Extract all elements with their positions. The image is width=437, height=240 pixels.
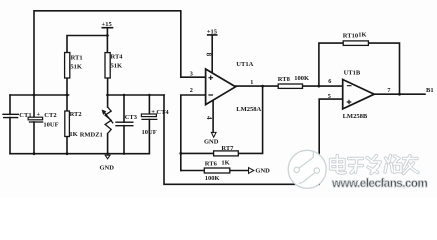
ground arrow at RT6 — [249, 168, 254, 174]
wire RT4 bottom to bus — [107, 78, 109, 95]
svg-text:100K: 100K — [205, 175, 220, 182]
svg-text:CT4: CT4 — [156, 109, 169, 116]
ground arrow at RMDZ1 bus — [105, 155, 110, 159]
svg-text:RMDZ1: RMDZ1 — [80, 131, 103, 138]
svg-text:6: 6 — [328, 78, 331, 85]
capacitor CT2 — [28, 117, 43, 122]
resistor RT10 — [343, 41, 368, 46]
wire CT2 column lower — [33, 122, 35, 154]
capacitor CT1 — [2, 114, 19, 117]
svg-text:+15: +15 — [102, 21, 113, 28]
svg-text:5: 5 — [328, 93, 331, 100]
svg-text:1: 1 — [250, 79, 253, 86]
svg-text:RT8: RT8 — [278, 76, 291, 83]
svg-text:10UF: 10UF — [43, 121, 58, 128]
svg-text:GND: GND — [255, 168, 270, 175]
wire CT3 column — [123, 95, 125, 154]
svg-text:B1: B1 — [426, 87, 434, 94]
svg-text:www.elecfans.com: www.elecfans.com — [331, 178, 427, 190]
svg-text:UT1A: UT1A — [236, 61, 253, 68]
wire RMDZ1 column — [107, 95, 109, 154]
wire +15 rail to RT1/RT4 — [67, 28, 113, 53]
svg-text:+15: +15 — [207, 28, 218, 35]
svg-text:RT6: RT6 — [205, 160, 218, 167]
resistor RT8 — [278, 84, 302, 88]
svg-text:2: 2 — [190, 87, 193, 94]
resistor RT7 — [214, 151, 239, 156]
svg-text:4: 4 — [205, 116, 213, 120]
svg-text:1K: 1K — [358, 31, 366, 38]
wire RT6 branch — [181, 170, 249, 172]
svg-text:8: 8 — [204, 53, 212, 57]
svg-text:+: + — [37, 111, 41, 118]
svg-text:RT1: RT1 — [71, 55, 83, 62]
svg-text:7: 7 — [387, 87, 390, 94]
op-amp U1B — [343, 80, 375, 109]
svg-text:UT1B: UT1B — [344, 70, 361, 77]
svg-text:GND: GND — [100, 165, 115, 172]
svg-text:CT2: CT2 — [44, 112, 56, 119]
svg-text:10UF: 10UF — [142, 129, 157, 136]
watermark logo circle — [288, 150, 326, 188]
resistor RT4 — [105, 53, 110, 78]
svg-text:1K: 1K — [221, 160, 229, 167]
wire mid bus left segment — [10, 94, 69, 96]
svg-text:100K: 100K — [294, 75, 309, 82]
svg-text:GND: GND — [204, 138, 219, 145]
wire RT8 to U1B pin6 — [303, 85, 343, 87]
resistor RT2 — [65, 111, 70, 137]
wire CT1 column — [9, 95, 11, 154]
wire RT7 branch — [181, 86, 263, 153]
svg-text:RT4: RT4 — [111, 54, 124, 61]
wire RT1 bottom to bus — [66, 78, 68, 95]
wire RT10 feedback loop — [319, 43, 400, 94]
wire CT4 column — [148, 95, 150, 154]
wire U1A output to RT8 — [236, 85, 279, 87]
wire top bus from node A to U1A pin3 — [34, 11, 206, 118]
wire U1A pin2 to feedback column — [181, 95, 206, 171]
op-amp U1A — [206, 69, 236, 105]
wire RT2 column — [66, 95, 68, 154]
capacitor CT4 — [141, 114, 157, 119]
svg-text:LM258A: LM258A — [236, 106, 261, 113]
thermistor RMDZ1 symbol — [105, 107, 114, 133]
wire U1A pin4 stem — [212, 99, 214, 132]
svg-text:LM258B: LM258B — [343, 113, 368, 120]
wire U1B output to B1 — [374, 93, 425, 95]
wire right column to U1B pin5 — [164, 95, 343, 184]
resistor RT6 — [204, 168, 230, 173]
watermark chinese text — [331, 156, 419, 174]
svg-text:RT10: RT10 — [343, 33, 358, 40]
ground arrow at U1A pin4 — [211, 132, 216, 137]
svg-text:+: + — [151, 108, 155, 115]
resistor RT1 — [65, 53, 70, 79]
svg-text:51K: 51K — [111, 63, 123, 70]
svg-text:RT2: RT2 — [70, 111, 82, 118]
svg-text:1K: 1K — [69, 131, 77, 138]
capacitor CT3 — [115, 122, 133, 126]
wire bottom ground bus — [10, 153, 149, 155]
wire U1A +15 stem — [208, 35, 217, 72]
svg-text:RT7: RT7 — [221, 145, 234, 152]
svg-text:CT3: CT3 — [125, 114, 138, 121]
svg-text:3: 3 — [190, 71, 193, 78]
svg-text:CT1: CT1 — [19, 112, 31, 119]
wire mid bus right segment — [107, 94, 164, 96]
svg-text:51K: 51K — [70, 63, 82, 70]
